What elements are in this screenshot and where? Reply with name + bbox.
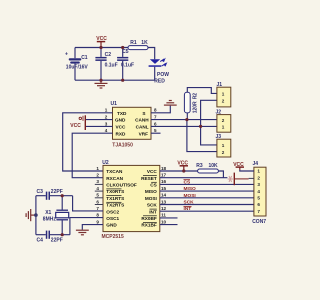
wires around U1: [63, 106, 217, 178]
wire C5 stubs: [122, 48, 124, 57]
wire SCK row: [160, 204, 254, 206]
svg-text:3: 3: [96, 179, 99, 184]
svg-text:4: 4: [257, 189, 260, 194]
wire J1 pin2 down through CANL to J3 pin1: [201, 100, 217, 145]
svg-text:OSC2: OSC2: [106, 209, 119, 214]
svg-text:POW: POW: [157, 72, 169, 78]
svg-text:1: 1: [222, 125, 225, 130]
wire GND pin9: [82, 225, 103, 230]
svg-text:X1: X1: [45, 210, 51, 216]
svg-text:SCK: SCK: [147, 203, 158, 208]
op-amp U1 body: [105, 101, 157, 148]
svg-text:1: 1: [257, 169, 260, 174]
svg-text:4: 4: [105, 128, 108, 133]
wire TXD to U2 TXCAN: [63, 113, 113, 171]
overbars TXnRTS: [106, 189, 121, 202]
svg-text:1: 1: [96, 166, 99, 171]
svg-text:CS: CS: [150, 183, 157, 188]
svg-text:5: 5: [96, 193, 99, 198]
svg-text:1: 1: [105, 108, 108, 113]
power port VCC at U1 pins 2-3: [70, 115, 86, 130]
junction dots top block: [99, 46, 124, 82]
svg-text:C2: C2: [105, 52, 112, 58]
wire U2 pin18 VCC row with R3: [82, 171, 254, 230]
svg-text:RESET: RESET: [141, 176, 157, 181]
wire crystal top: [61, 196, 63, 210]
svg-text:S: S: [142, 111, 145, 116]
wire RESET row: [160, 177, 228, 179]
wire RX0BF stub: [160, 217, 178, 219]
svg-text:VCC: VCC: [116, 125, 127, 130]
capacitor C4: [37, 231, 63, 244]
stub pins U2 left rows 3-6: [95, 184, 103, 204]
svg-text:CANL: CANL: [136, 125, 149, 130]
svg-text:10uF/16V: 10uF/16V: [66, 64, 89, 70]
svg-text:VCC: VCC: [70, 123, 81, 129]
ground at U2 pin9: [76, 230, 89, 235]
svg-text:5: 5: [257, 196, 260, 201]
svg-text:3: 3: [257, 182, 260, 187]
svg-text:J2: J2: [216, 109, 222, 115]
wire R3 right to RESET row corner: [218, 171, 223, 178]
svg-text:INT: INT: [149, 209, 157, 214]
reset port marker (asterisk + bar): [228, 173, 249, 186]
power port VCC at U2 pin18: [177, 161, 188, 171]
svg-text:J1: J1: [217, 82, 223, 88]
svg-text:VCC: VCC: [147, 169, 158, 174]
svg-text:SCK: SCK: [184, 200, 195, 206]
ground below C2: [95, 80, 108, 88]
resistor R2 (120R termination): [184, 92, 198, 113]
svg-text:11: 11: [161, 213, 166, 218]
svg-text:U2: U2: [102, 160, 109, 166]
capacitor C3: [37, 189, 63, 200]
resistor R1: [128, 40, 148, 50]
wire VCC to J4 pin1: [240, 170, 254, 171]
svg-text:18: 18: [161, 166, 167, 171]
wire R2 bottom to CANH: [186, 113, 188, 120]
svg-text:120R: 120R: [193, 101, 199, 113]
svg-text:R2: R2: [193, 93, 199, 100]
wire top rail: [75, 47, 128, 49]
junction dot CANH/R2: [185, 118, 188, 121]
capacitor C2: [95, 52, 117, 68]
svg-text:8MHz: 8MHz: [43, 217, 57, 223]
svg-text:0.1uF: 0.1uF: [105, 63, 118, 69]
svg-text:7: 7: [96, 206, 99, 211]
svg-text:22PF: 22PF: [51, 189, 63, 195]
svg-text:MOSI: MOSI: [184, 193, 197, 199]
svg-text:2: 2: [96, 173, 99, 178]
svg-text:C3: C3: [37, 189, 44, 195]
svg-text:16: 16: [161, 179, 167, 184]
svg-text:GND: GND: [115, 118, 126, 123]
wire RXD to U2 RXCAN: [72, 133, 112, 178]
svg-text:7: 7: [154, 115, 157, 120]
wire C1 stubs: [74, 48, 76, 59]
svg-text:J4: J4: [253, 161, 259, 167]
svg-text:INT: INT: [184, 206, 192, 212]
svg-text:2: 2: [105, 115, 108, 120]
net label CS: [184, 179, 191, 185]
wire CANH row: [151, 119, 217, 121]
wire INT row: [160, 210, 254, 212]
wire C4 row: [36, 234, 46, 236]
wire left vertical: [35, 196, 37, 235]
svg-text:CLKOUT/SOF: CLKOUT/SOF: [106, 183, 137, 188]
wire MISO row: [160, 190, 254, 192]
wire OSC2 branch: [73, 196, 103, 211]
svg-text:10K: 10K: [209, 163, 219, 169]
svg-text:RXD: RXD: [116, 131, 127, 136]
svg-text:1: 1: [222, 92, 225, 97]
svg-text:RX0BF: RX0BF: [141, 216, 157, 221]
svg-text:6: 6: [96, 199, 99, 204]
svg-text:TX0RTS: TX0RTS: [106, 189, 124, 194]
svg-text:TJA1050: TJA1050: [112, 142, 133, 148]
junction dots crystal block: [61, 194, 64, 236]
svg-text:7: 7: [257, 209, 260, 214]
svg-text:MCP2515: MCP2515: [102, 234, 124, 240]
svg-text:OSC1: OSC1: [106, 216, 119, 221]
svg-text:8: 8: [96, 213, 99, 218]
svg-text:C4: C4: [37, 238, 44, 244]
resistor R3 10K pull-up: [196, 163, 218, 173]
svg-text:3: 3: [105, 121, 108, 126]
wire C3 row: [36, 195, 46, 197]
svg-text:TX2RTS: TX2RTS: [106, 203, 124, 208]
svg-text:1K: 1K: [141, 40, 148, 46]
ground left of crystal (rotated earth): [26, 209, 36, 221]
svg-text:0.1uF: 0.1uF: [121, 63, 134, 69]
junction dot VCC row: [182, 169, 185, 172]
svg-text:17: 17: [161, 173, 167, 178]
wire pin3 stub to VCC bar: [86, 125, 113, 127]
wire CS row: [160, 183, 254, 185]
svg-text:GND: GND: [106, 223, 117, 228]
wire RX1BF stub: [160, 224, 178, 226]
wire CANH down to J3 pin2: [187, 120, 217, 152]
svg-text:4: 4: [96, 186, 99, 191]
svg-text:14: 14: [161, 193, 167, 198]
svg-text:MOSI: MOSI: [145, 196, 157, 201]
svg-text:CS: CS: [184, 179, 191, 185]
connector J2: [216, 109, 231, 132]
wire MOSI row: [160, 197, 254, 199]
wire R1 to LED corner: [148, 48, 155, 60]
wire pin8 S to ground: [151, 106, 170, 113]
svg-text:2: 2: [222, 118, 225, 123]
svg-text:U1: U1: [111, 101, 118, 107]
svg-text:6: 6: [154, 121, 157, 126]
power port VCC top: [96, 36, 107, 48]
overbars right names: [143, 176, 157, 223]
svg-text:CON7: CON7: [252, 219, 266, 225]
svg-text:RED: RED: [154, 79, 165, 85]
svg-text:1: 1: [222, 143, 225, 148]
capacitor C1: [65, 52, 88, 71]
net label INT: [184, 206, 192, 212]
crystal X1 8MHz: [43, 210, 69, 223]
svg-text:2: 2: [222, 150, 225, 155]
svg-text:J3: J3: [216, 134, 222, 140]
wire C2 stubs: [100, 48, 102, 57]
svg-text:22PF: 22PF: [51, 238, 63, 244]
wire pin2 stub to VCC bar: [86, 119, 113, 121]
svg-text:CANH: CANH: [135, 118, 149, 123]
svg-text:R3: R3: [196, 163, 203, 169]
wire bottom rail: [75, 79, 155, 81]
svg-text:8: 8: [154, 108, 157, 113]
capacitor C5: [117, 49, 134, 69]
svg-text:5: 5: [154, 128, 157, 133]
power port VCC at J4 pin1: [233, 162, 244, 170]
LED D1 POW RED: [149, 59, 170, 85]
svg-text:10: 10: [161, 219, 167, 224]
wire CANL row: [151, 125, 217, 127]
svg-text:MISO: MISO: [184, 186, 197, 192]
wire LED bottom: [154, 67, 156, 80]
junction dot at crystal ground tap: [34, 213, 38, 217]
svg-text:13: 13: [161, 199, 167, 204]
svg-text:MISO: MISO: [145, 189, 157, 194]
svg-text:RXCAN: RXCAN: [106, 176, 123, 181]
svg-text:VRF: VRF: [139, 131, 149, 136]
junction dot CANL: [199, 125, 202, 128]
svg-text:15: 15: [161, 186, 167, 191]
svg-text:RX1BF: RX1BF: [141, 223, 157, 228]
wire crystal bottom: [61, 220, 63, 234]
wire OSC1 branch: [70, 218, 103, 235]
svg-text:2: 2: [222, 99, 225, 104]
wire VRF stub: [151, 132, 161, 134]
svg-text:2: 2: [257, 175, 260, 180]
wire R2 top to J1 pin1: [187, 88, 217, 94]
svg-text:C1: C1: [81, 55, 88, 61]
svg-text:TX1RTS: TX1RTS: [106, 196, 124, 201]
svg-text:C5: C5: [122, 49, 129, 55]
svg-text:+: +: [65, 52, 68, 58]
svg-text:12: 12: [161, 206, 167, 211]
svg-text:9: 9: [96, 219, 99, 224]
svg-text:TXCAN: TXCAN: [106, 169, 123, 174]
stub pin J4 pin2: [249, 177, 254, 179]
connector J3: [216, 134, 231, 157]
ground at U1 pin 8 (S): [164, 101, 177, 106]
svg-text:R1: R1: [130, 40, 137, 46]
connector J1: [217, 82, 231, 107]
svg-text:6: 6: [257, 202, 260, 207]
svg-text:TXD: TXD: [117, 111, 127, 116]
